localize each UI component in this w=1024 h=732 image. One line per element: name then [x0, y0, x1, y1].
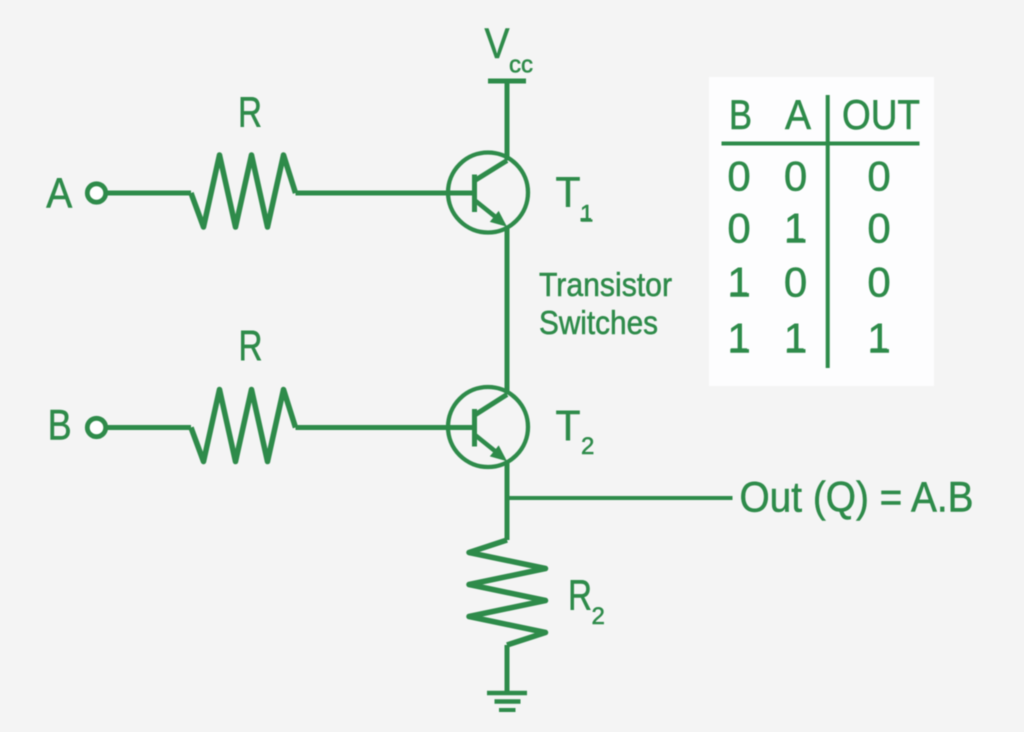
- svg-text:cc: cc: [509, 52, 533, 79]
- svg-text:V: V: [485, 20, 510, 68]
- svg-text:Transistor: Transistor: [539, 266, 672, 303]
- svg-text:T: T: [556, 169, 581, 217]
- svg-text:1: 1: [867, 315, 890, 362]
- svg-text:2: 2: [581, 433, 594, 460]
- svg-text:R: R: [239, 322, 263, 370]
- svg-text:T: T: [556, 402, 581, 450]
- svg-text:1: 1: [727, 315, 750, 362]
- svg-text:2: 2: [592, 603, 605, 630]
- svg-text:A: A: [46, 170, 72, 218]
- svg-text:1: 1: [784, 315, 807, 362]
- svg-text:0: 0: [867, 153, 890, 200]
- svg-text:0: 0: [867, 205, 890, 252]
- svg-text:1: 1: [580, 201, 593, 228]
- svg-text:0: 0: [784, 153, 807, 200]
- svg-text:1: 1: [727, 259, 750, 306]
- svg-text:B: B: [48, 402, 72, 450]
- svg-text:R: R: [238, 89, 262, 137]
- svg-text:OUT: OUT: [842, 91, 920, 138]
- svg-text:0: 0: [727, 153, 750, 200]
- svg-text:0: 0: [784, 259, 807, 306]
- svg-text:A: A: [785, 91, 811, 138]
- svg-text:1: 1: [784, 205, 807, 252]
- svg-text:R: R: [568, 572, 592, 620]
- svg-text:B: B: [729, 91, 752, 138]
- svg-text:0: 0: [727, 205, 750, 252]
- svg-text:Out (Q) = A.B: Out (Q) = A.B: [740, 474, 974, 522]
- svg-text:0: 0: [867, 259, 890, 306]
- svg-text:Switches: Switches: [539, 304, 658, 341]
